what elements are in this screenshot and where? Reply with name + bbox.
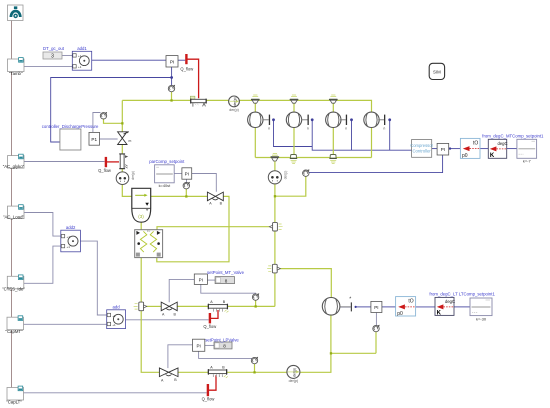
svg-text:degC: degC <box>445 299 455 304</box>
svg-text:"Tamb": "Tamb" <box>9 71 23 76</box>
svg-text:+1: +1 <box>67 245 71 249</box>
svg-text:K: K <box>437 310 442 316</box>
svg-text:Q_flow: Q_flow <box>202 397 215 402</box>
svg-text:der(p): der(p) <box>292 368 296 377</box>
svg-text:tO: tO <box>473 140 478 146</box>
svg-text:PI: PI <box>199 277 203 282</box>
svg-text:+1: +1 <box>112 314 116 318</box>
svg-text:"CapLT": "CapLT" <box>6 400 22 405</box>
svg-text:k=40st: k=40st <box>159 183 171 188</box>
svg-text:from_degC_LT LTComp_setpoint1: from_degC_LT LTComp_setpoint1 <box>429 292 495 297</box>
svg-text:8: 8 <box>223 344 226 349</box>
svg-text:n: n <box>268 126 270 130</box>
svg-text:n: n <box>384 126 386 130</box>
svg-text:tO: tO <box>408 299 413 305</box>
svg-text:Compressor: Compressor <box>410 143 433 148</box>
svg-text:add1: add1 <box>77 46 87 51</box>
svg-text:k=-30: k=-30 <box>476 316 487 321</box>
svg-text:8: 8 <box>225 278 228 283</box>
svg-text:setPoint_LPValve: setPoint_LPValve <box>205 338 239 343</box>
svg-text:PI: PI <box>196 343 200 348</box>
svg-text:degC: degC <box>497 141 507 146</box>
svg-text:*: * <box>349 297 351 303</box>
svg-text:"CTES_Ide": "CTES_Ide" <box>2 286 25 291</box>
svg-text:DT_gc_out: DT_gc_out <box>43 46 65 51</box>
svg-text:Controller: Controller <box>413 148 432 153</box>
svg-text:3: 3 <box>51 54 54 60</box>
svg-text:setPoint_MT_Valve: setPoint_MT_Valve <box>207 270 245 275</box>
svg-text:+1: +1 <box>112 323 116 327</box>
svg-text:SIM: SIM <box>433 69 441 74</box>
svg-text:"AC_glyko": "AC_glyko" <box>3 164 25 169</box>
svg-text:controller_DischargePressure: controller_DischargePressure <box>42 124 99 129</box>
svg-text:P1: P1 <box>91 137 97 142</box>
svg-text:PI: PI <box>441 147 445 152</box>
svg-text:Q_flow: Q_flow <box>180 67 193 72</box>
svg-text:"AC_Load": "AC_Load" <box>3 215 24 220</box>
svg-text:+1: +1 <box>78 65 82 69</box>
svg-text:der(p): der(p) <box>233 97 237 106</box>
svg-text:PI: PI <box>374 305 378 310</box>
svg-text:K: K <box>490 153 495 159</box>
svg-text:add: add <box>113 304 121 309</box>
svg-text:from_degC_MTComp_setpoint1: from_degC_MTComp_setpoint1 <box>482 134 544 139</box>
svg-text:m: m <box>129 139 132 143</box>
svg-text:+1: +1 <box>67 235 71 239</box>
svg-text:n: n <box>345 126 347 130</box>
svg-text:PI: PI <box>185 172 189 177</box>
svg-text:der(p): der(p) <box>283 171 287 180</box>
svg-text:"CapMT": "CapMT" <box>5 329 23 334</box>
svg-text:+1: +1 <box>78 54 82 58</box>
svg-text:PI: PI <box>170 59 174 64</box>
svg-text:p0: p0 <box>397 311 403 317</box>
svg-text:Q_flow: Q_flow <box>203 324 216 329</box>
svg-text:p0: p0 <box>462 153 468 159</box>
svg-text:(3): (3) <box>138 214 144 219</box>
svg-text:k=-7: k=-7 <box>523 159 532 164</box>
svg-text:Q_flow: Q_flow <box>98 168 111 173</box>
svg-text:n: n <box>307 126 309 130</box>
svg-text:der(p): der(p) <box>229 108 239 112</box>
svg-text:der(p): der(p) <box>289 379 299 383</box>
svg-text:parComp_setpoint: parComp_setpoint <box>149 159 185 164</box>
svg-text:add2: add2 <box>66 225 76 230</box>
svg-text:der(p): der(p) <box>131 171 135 180</box>
